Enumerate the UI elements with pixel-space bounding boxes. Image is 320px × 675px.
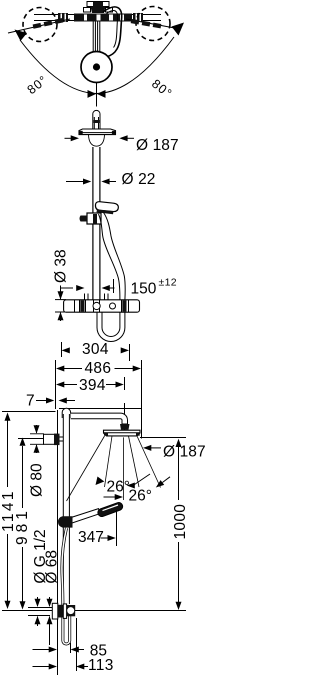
top reference line bbox=[2, 411, 56, 413]
thermostat supply unions bbox=[85, 294, 109, 300]
dia 187 leader (front) bbox=[143, 445, 161, 451]
dim 1141 bbox=[5, 413, 11, 610]
left rotation arrowhead bbox=[15, 30, 28, 42]
wall outlet fitting bbox=[52, 603, 75, 619]
wall bar top fitting bbox=[84, 2, 113, 14]
riser rail (front) bbox=[62, 408, 70, 604]
svg-text:Ø 187: Ø 187 bbox=[136, 137, 179, 154]
riser pipe (side) bbox=[93, 147, 100, 300]
hose U-loop under thermostat bbox=[97, 312, 125, 341]
wall plate (front) bbox=[44, 434, 64, 446]
hand shower (front) bbox=[58, 503, 123, 528]
svg-text:±12: ±12 bbox=[159, 277, 177, 289]
dim 981 bbox=[18, 438, 43, 610]
svg-text:113: 113 bbox=[88, 657, 114, 674]
left dashed circle (swivel position) bbox=[23, 8, 57, 42]
right dashed circle (swivel position) bbox=[136, 7, 170, 41]
hose (front view) bbox=[62, 528, 70, 644]
thermostat body (side) bbox=[64, 300, 140, 312]
spray centreline bbox=[123, 437, 125, 500]
dim 150 +/-12 leader bbox=[60, 279, 115, 293]
svg-text:80°: 80° bbox=[149, 77, 175, 102]
svg-text:Ø 68: Ø 68 bbox=[44, 550, 61, 584]
spray lines bbox=[67, 436, 161, 501]
dia 68 dim arrows bbox=[47, 597, 53, 626]
svg-text:981: 981 bbox=[14, 507, 31, 545]
dim 1000 bbox=[176, 439, 182, 610]
svg-text:26°: 26° bbox=[107, 479, 130, 496]
dim arrows diameter 187 (side) bbox=[65, 135, 135, 141]
dim 85 bbox=[33, 643, 85, 653]
head reference line to right bbox=[140, 437, 186, 439]
dia G1/2 dim arrows bbox=[28, 597, 53, 626]
centreline through circle bbox=[96, 83, 98, 107]
horizontal arm bar (plan view) bbox=[74, 14, 132, 22]
shower arm (front) bbox=[71, 413, 128, 424]
holder bracket (side) bbox=[80, 213, 102, 224]
dim dia 80 bbox=[30, 425, 44, 453]
left arm extension bbox=[34, 13, 74, 22]
right swivel arm line bbox=[126, 19, 176, 29]
80 degree swing arc bbox=[20, 37, 174, 94]
dim 7 bbox=[36, 398, 75, 404]
svg-text:Ø 38: Ø 38 bbox=[53, 249, 70, 283]
dim 394 bbox=[56, 377, 125, 430]
svg-text:26°: 26° bbox=[129, 488, 152, 505]
hose (side view) bbox=[99, 213, 126, 301]
svg-text:Ø 22: Ø 22 bbox=[122, 171, 156, 188]
dome under disc bbox=[89, 135, 105, 146]
left swivel arm line bbox=[8, 18, 70, 33]
svg-text:150: 150 bbox=[131, 281, 157, 298]
hose (plan view) bbox=[103, 7, 122, 57]
riser pipe (plan) bbox=[93, 22, 100, 64]
svg-text:347: 347 bbox=[78, 529, 104, 546]
centre tick bbox=[96, 99, 98, 104]
head shower disc (side) bbox=[79, 129, 116, 135]
svg-text:7: 7 bbox=[26, 392, 35, 409]
svg-text:394: 394 bbox=[79, 377, 106, 394]
dim 486 bbox=[56, 360, 142, 439]
arm-head connector bbox=[120, 424, 130, 430]
swivel circle (head joint plan) bbox=[81, 52, 112, 83]
wall line bbox=[57, 410, 59, 675]
svg-text:Ø 187: Ø 187 bbox=[163, 444, 206, 461]
svg-text:486: 486 bbox=[85, 360, 112, 377]
hand shower in holder (side) bbox=[95, 202, 118, 215]
right rotation arrowhead bbox=[172, 23, 185, 36]
right arm extension bbox=[132, 13, 161, 22]
bottom supply line bbox=[2, 610, 186, 612]
dia 68 dim line lower stub bbox=[49, 626, 51, 645]
dim 113 bbox=[33, 618, 89, 671]
spray angle arrows bbox=[96, 474, 171, 500]
svg-text:1000: 1000 bbox=[172, 504, 189, 540]
dia 38 dim arrows (thermostat body) bbox=[55, 286, 66, 322]
arc end arrows (bowtie at centre) bbox=[88, 90, 97, 98]
dim 347 bbox=[101, 510, 117, 546]
head shower disc (front) bbox=[104, 430, 141, 436]
svg-text:304: 304 bbox=[82, 341, 109, 358]
dim arrows diameter 22 bbox=[66, 179, 116, 185]
svg-text:Ø 80: Ø 80 bbox=[29, 463, 46, 497]
dim 304 bbox=[62, 342, 130, 361]
ball joint stem bbox=[93, 110, 100, 128]
svg-text:80°: 80° bbox=[25, 73, 51, 98]
